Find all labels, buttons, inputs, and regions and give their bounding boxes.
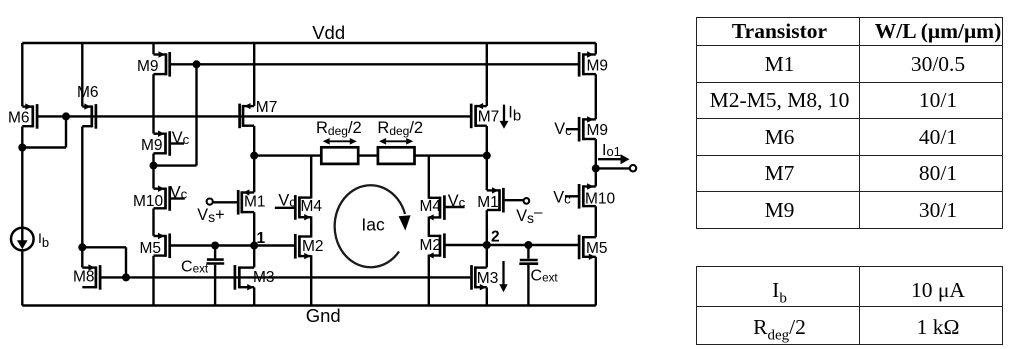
svg-text:Vc: Vc xyxy=(170,184,188,202)
svg-text:Iac: Iac xyxy=(361,215,385,235)
svg-text:Vc: Vc xyxy=(554,120,572,138)
svg-text:Vc: Vc xyxy=(448,192,466,210)
svg-text:M6: M6 xyxy=(77,84,99,101)
svg-text:M9: M9 xyxy=(137,58,159,75)
svg-text:M4: M4 xyxy=(420,198,442,215)
svg-text:Ib: Ib xyxy=(508,103,521,124)
svg-text:M4: M4 xyxy=(301,198,323,215)
svg-text:M7: M7 xyxy=(478,109,500,126)
svg-text:M1: M1 xyxy=(244,194,266,211)
svg-text:Vc: Vc xyxy=(278,192,296,210)
svg-text:2: 2 xyxy=(491,229,500,246)
svg-text:M3: M3 xyxy=(253,269,275,286)
svg-text:Gnd: Gnd xyxy=(306,305,341,326)
svg-text:M10: M10 xyxy=(133,193,164,210)
svg-text:Cext: Cext xyxy=(181,259,209,276)
svg-text:M7: M7 xyxy=(256,99,278,116)
svg-text:Vc: Vc xyxy=(172,129,190,147)
svg-text:M6: M6 xyxy=(8,109,30,126)
svg-text:1: 1 xyxy=(257,230,266,247)
svg-text:M8: M8 xyxy=(73,269,95,286)
svg-text:M9: M9 xyxy=(587,122,609,139)
svg-text:M5: M5 xyxy=(140,240,162,257)
svg-text:Vdd: Vdd xyxy=(312,22,345,43)
svg-text:M9: M9 xyxy=(587,58,609,75)
svg-text:M9: M9 xyxy=(141,137,163,154)
svg-text:Io1: Io1 xyxy=(602,142,621,159)
svg-text:Vs+: Vs+ xyxy=(197,206,224,225)
svg-text:M2: M2 xyxy=(420,237,442,254)
svg-text:M10: M10 xyxy=(585,191,616,208)
svg-text:Cext: Cext xyxy=(531,268,559,285)
svg-text:M2: M2 xyxy=(302,238,324,255)
svg-text:M3: M3 xyxy=(477,270,499,287)
svg-text:Vc: Vc xyxy=(553,188,571,206)
svg-text:M1: M1 xyxy=(477,194,499,211)
svg-text:M5: M5 xyxy=(586,240,608,257)
